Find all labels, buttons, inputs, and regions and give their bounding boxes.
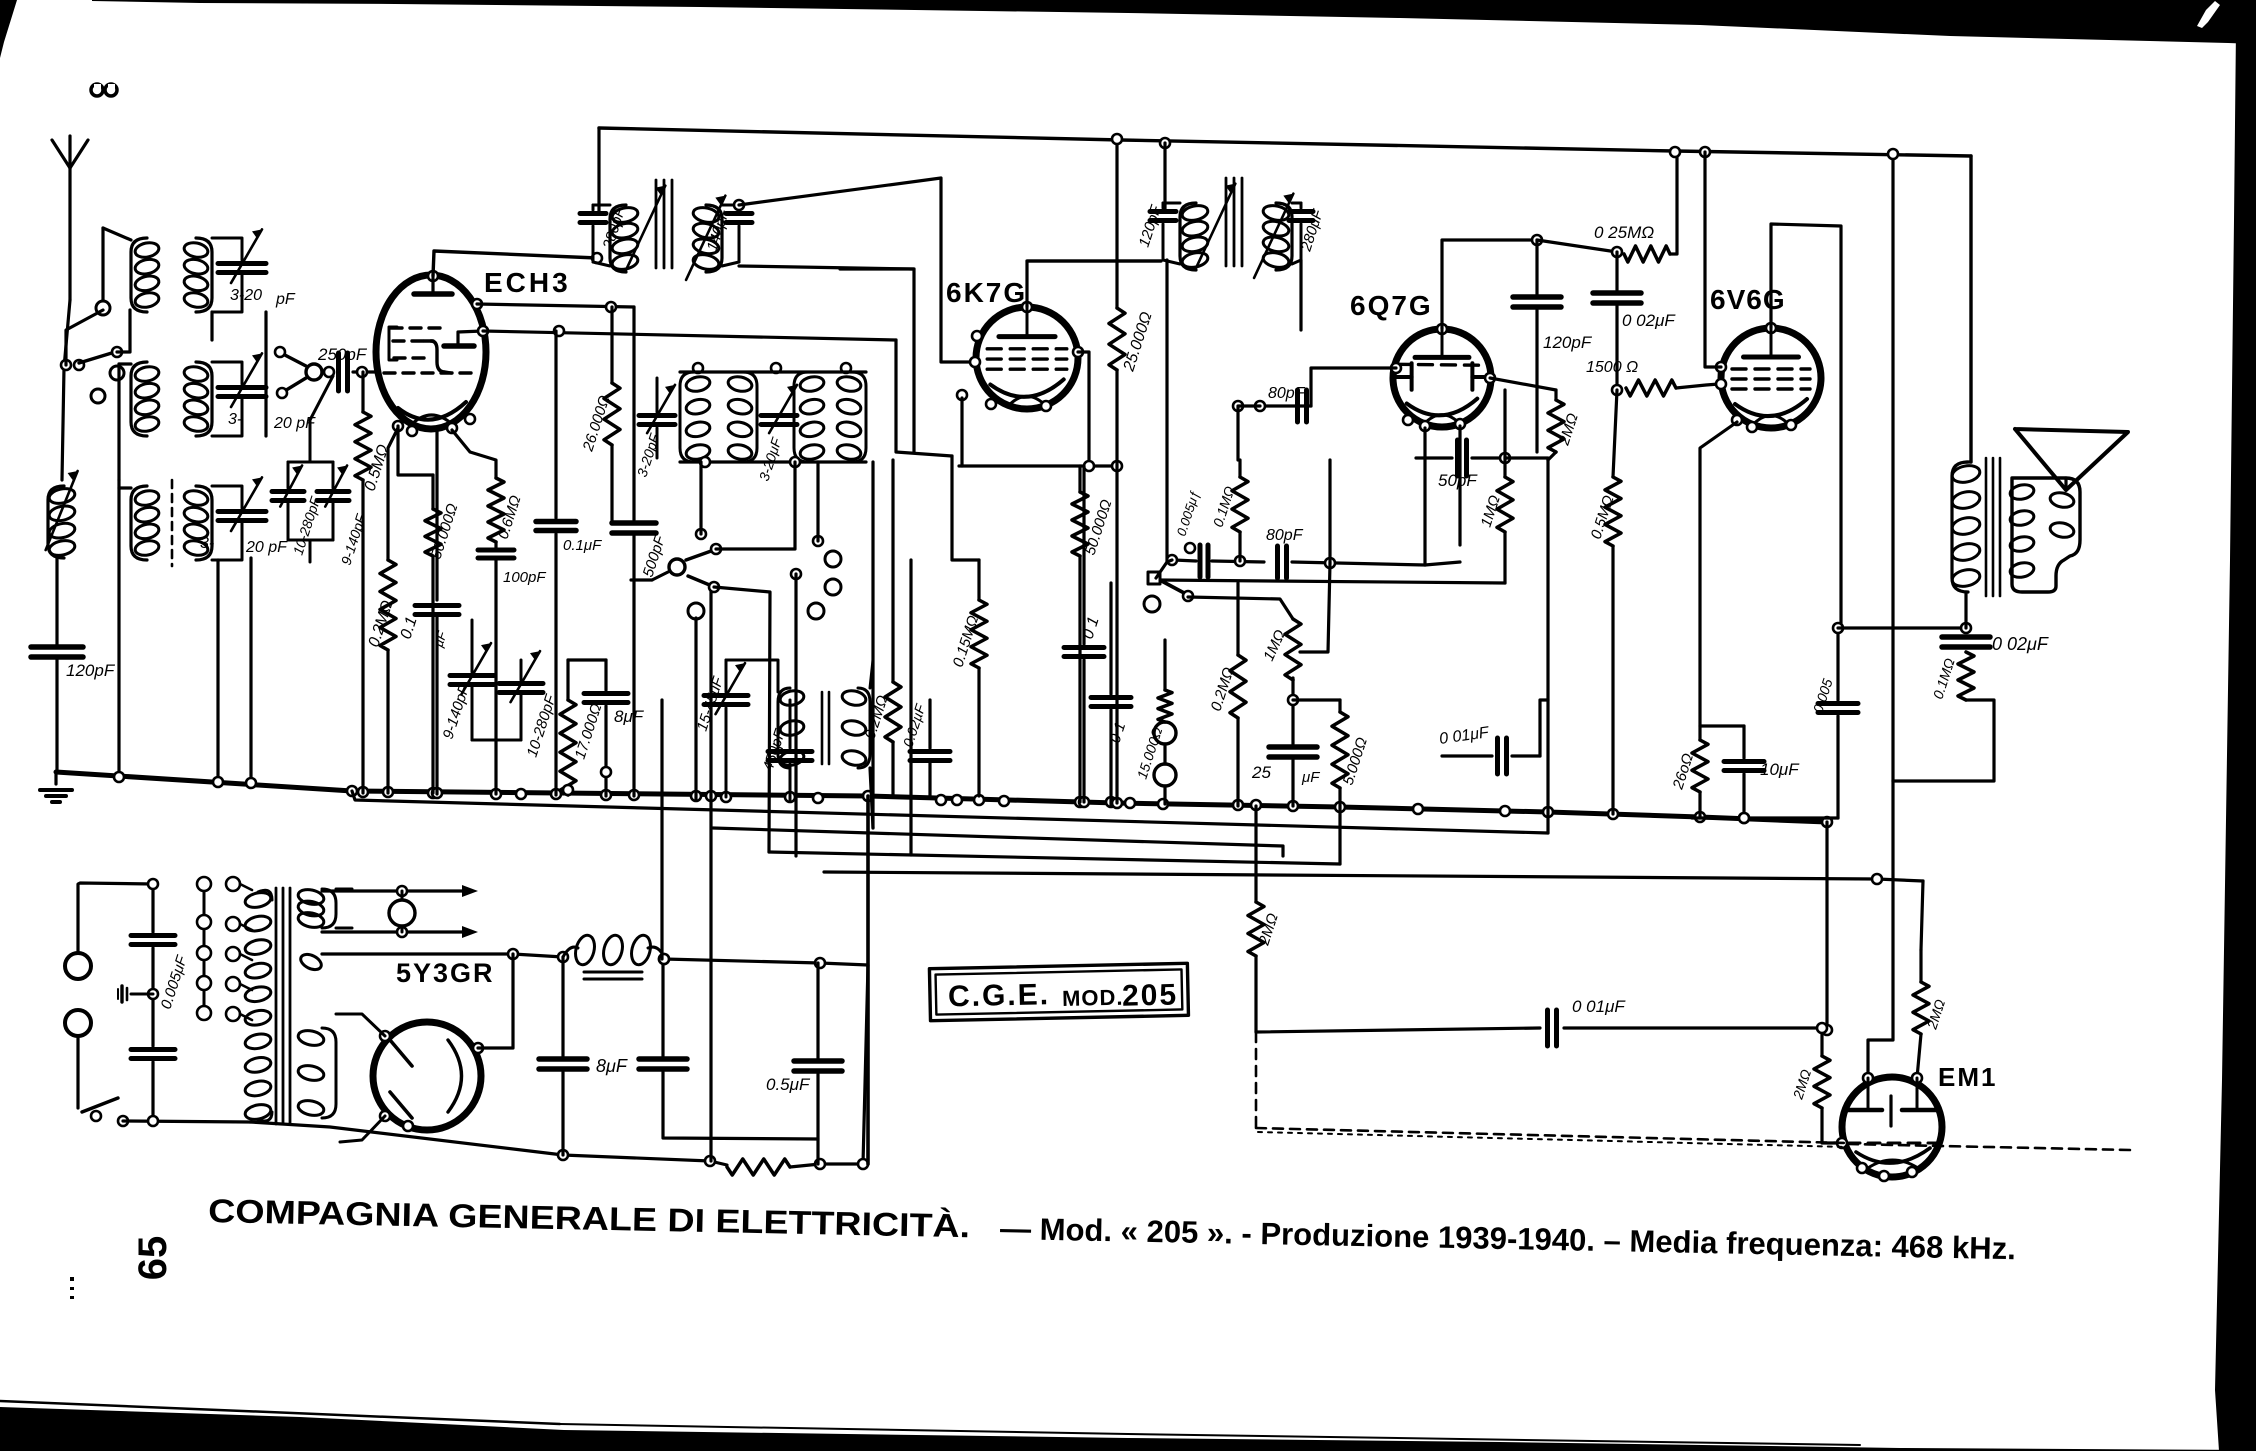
svg-text:120pF: 120pF	[66, 661, 116, 680]
svg-text:3-: 3-	[200, 535, 214, 552]
svg-text:μF: μF	[1301, 769, 1320, 786]
svg-text:EM1: EM1	[1938, 1062, 1997, 1092]
svg-text:20 pF: 20 pF	[245, 539, 288, 556]
svg-text:250pF: 250pF	[317, 345, 368, 364]
svg-text:120pF: 120pF	[1543, 333, 1593, 352]
svg-text:0 01μF: 0 01μF	[1572, 997, 1626, 1016]
svg-text:50pF: 50pF	[1438, 471, 1478, 490]
svg-text:8μF: 8μF	[614, 707, 645, 726]
svg-text:0.5μF: 0.5μF	[766, 1075, 811, 1094]
svg-text:0 02μF: 0 02μF	[1622, 311, 1676, 330]
svg-text:C.G.E.: C.G.E.	[948, 978, 1051, 1013]
svg-text:8μF: 8μF	[596, 1056, 628, 1076]
svg-text:80pF: 80pF	[1268, 385, 1306, 402]
svg-text:6Q7G: 6Q7G	[1350, 290, 1433, 321]
svg-text:5Y3GR: 5Y3GR	[396, 958, 495, 988]
svg-text:25: 25	[1251, 763, 1271, 782]
svg-text:6K7G: 6K7G	[946, 277, 1027, 308]
svg-text:pF: pF	[275, 291, 296, 308]
svg-text:10μF: 10μF	[1760, 760, 1800, 779]
svg-text:205: 205	[1122, 979, 1179, 1013]
svg-text:MOD.: MOD.	[1062, 985, 1124, 1011]
svg-text:80pF: 80pF	[1266, 527, 1304, 544]
svg-text:6V6G: 6V6G	[1710, 284, 1786, 315]
svg-text:3-: 3-	[228, 411, 242, 428]
svg-text:0 02μF: 0 02μF	[1992, 634, 2049, 654]
svg-text:100pF: 100pF	[503, 569, 546, 586]
svg-text:1500 Ω: 1500 Ω	[1586, 359, 1638, 376]
svg-text:0.1μF: 0.1μF	[563, 537, 602, 554]
svg-text:ECH3: ECH3	[484, 267, 571, 298]
svg-text:65: 65	[131, 1236, 175, 1281]
svg-text:3-20: 3-20	[230, 287, 262, 304]
svg-text:0 25MΩ: 0 25MΩ	[1594, 223, 1654, 242]
